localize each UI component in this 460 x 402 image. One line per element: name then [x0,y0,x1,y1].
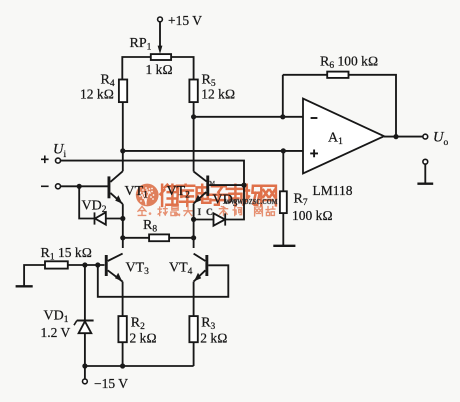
input terminal Ui plus [56,158,61,163]
transistor VT2 [206,176,209,196]
transistor VT3 [105,255,108,276]
wire R4 to node [122,102,124,151]
wire VT4 emitter down to R3 [193,282,195,317]
resistor R2 [118,316,126,342]
svg-text:+15 V: +15 V [168,13,202,28]
wire VT2 base [209,184,244,186]
wire -15V terminal [84,366,86,379]
wire R1 to VT3 base [68,264,105,266]
wire output [384,136,423,138]
wire Ui- to VT1 base [61,185,108,187]
svg-text:RP1: RP1 [130,36,152,53]
wire R7 top [282,151,284,191]
svg-text:VT4: VT4 [169,261,193,278]
svg-text:1.2 V: 1.2 V [41,325,71,340]
plus sign label (terminal) [41,156,49,164]
svg-text:R7: R7 [294,192,308,209]
svg-text:R1 15 kΩ: R1 15 kΩ [41,245,92,263]
svg-text:R6 100 kΩ: R6 100 kΩ [320,54,378,72]
resistor R5 [189,80,197,103]
transistor VT1 [108,176,111,198]
wire VT2 collector up [193,117,195,172]
svg-text:12 kΩ: 12 kΩ [80,87,114,102]
wire ground to R1 [24,265,45,286]
svg-text:i: i [64,150,67,160]
wire ground terminal [424,164,426,183]
wire +15V to RP1 wiper [159,22,161,46]
wire pot right to R5 [171,57,194,80]
svg-text:LM118: LM118 [313,183,353,198]
wire R7 bottom [282,213,284,245]
diode VD3 [214,213,226,225]
output terminal circle Uo [423,134,428,139]
node dot VD3/VT2 emitter [191,217,196,222]
plus sign inside op-amp [310,150,318,158]
zener diode VD1 [77,320,94,322]
wire Ui+ to VT2 base route [61,161,244,186]
output ground terminal circle [423,159,428,164]
potentiometer RP1 [151,54,171,60]
wire VD3 anode to VT2 emitter [194,219,214,221]
wire negative rail [85,365,194,367]
svg-text:VD2: VD2 [82,199,107,216]
node dot feedback/inverting [280,114,285,119]
wire feedback top left [283,74,327,76]
node dot R8 right [191,235,196,240]
node dot R2/rail [120,363,125,368]
wire R3 bottom [193,342,195,366]
wire R8 right [169,237,194,239]
node dot R5/inverting [191,114,196,119]
watermark small text quan-qiu-zui-da-I-C-cai-gou-wang-zhan [138,207,275,216]
transistor VT4 [205,255,208,276]
wire pot left to R4 [122,57,151,80]
watermark big text wei-ku-dian-zi-shi-chang-wang [160,185,276,206]
wire VD2 anode to VT1 emitter [106,218,123,220]
svg-text:VD3: VD3 [213,193,238,210]
svg-text:2 kΩ: 2 kΩ [200,331,227,346]
node dot VD1/rail [82,363,87,368]
+15V supply terminal [158,17,163,22]
wire noninverting input line [123,150,303,152]
node dot R8 left [120,235,125,240]
wire feedback top right [349,75,397,137]
wire VT1 collector up [122,151,124,171]
minus sign inside op-amp [311,117,318,119]
wire inverting input line [194,116,303,118]
wire R2 bottom [122,342,124,366]
node dot VD2 branch [77,184,82,189]
ground bar (R1) [16,285,33,287]
wire VT4 base loop [98,265,229,297]
op-amp A1 triangle [303,99,384,174]
ground bar (output) [417,182,433,184]
node dot base loop branch [95,262,100,267]
svg-text:1 kΩ: 1 kΩ [146,62,173,77]
node dot VD1 branch [82,262,87,267]
resistor R4 [119,80,127,103]
resistor R6 [327,72,348,78]
resistor R1 [45,261,68,268]
svg-text:12 kΩ: 12 kΩ [201,87,235,102]
minus sign label (terminal) [41,185,49,187]
-15V terminal circle [83,379,88,384]
svg-text:VT3: VT3 [126,261,150,278]
wire to VD2 cathode [79,186,94,218]
svg-text:VD1: VD1 [44,309,69,326]
wire VT3 emitter down to R2 [122,282,124,317]
node dot R7/noninverting [281,148,286,153]
wire R8 left [123,237,149,239]
wire VT2 emitter down to VT4 collector [193,204,195,248]
wire VT1 emitter down to VT3 collector [122,204,124,248]
svg-text:2 kΩ: 2 kΩ [130,331,157,346]
svg-text:100 kΩ: 100 kΩ [292,208,333,223]
node dot R4/noninverting [120,148,125,153]
resistor R7 [280,191,287,213]
ground bar (R7) [273,245,295,247]
input terminal Ui minus [56,184,61,189]
wire VD1 vertical top [84,265,86,321]
wire feedback left vertical [282,75,284,117]
wire VD1 bottom [84,333,86,366]
wire R5 to node [193,102,195,117]
watermark logo circle [136,184,159,207]
watermark logo dandelion [139,191,150,205]
node dot feedback/output [393,134,398,139]
svg-text:I C: I C [198,208,213,218]
diode VD2 [95,212,106,224]
svg-text:−15 V: −15 V [94,376,128,391]
svg-text:o: o [444,138,449,148]
wire node to VD3 cathode [225,185,244,219]
svg-text:R8: R8 [143,218,157,235]
node dot VD2/VT1 emitter [120,216,125,221]
node dot VT2 base route [241,183,246,188]
resistor R8 [149,234,169,241]
resistor R3 [189,316,197,342]
